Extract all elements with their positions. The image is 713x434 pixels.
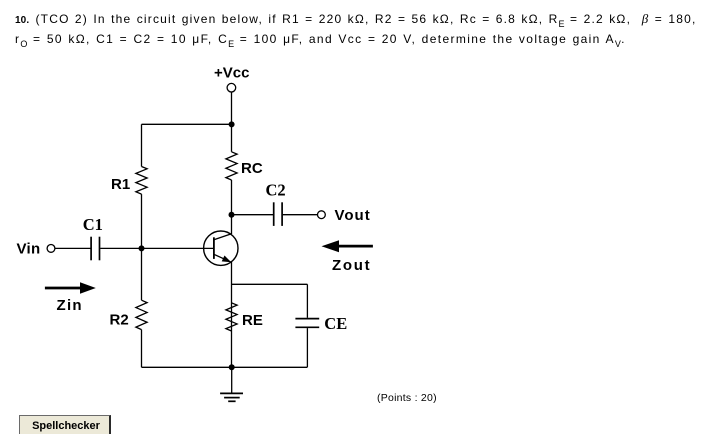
wire left down to R1 — [141, 124, 143, 166]
wire RC top — [231, 124, 233, 152]
wire C2 to Vout — [283, 214, 318, 216]
resistor R2 — [110, 300, 148, 329]
node collector junction — [229, 212, 235, 218]
wire emitter vertical — [231, 262, 233, 367]
svg-text:R2: R2 — [110, 312, 129, 329]
resistor RC — [226, 152, 263, 180]
ground — [220, 393, 243, 401]
Zin arrow — [45, 282, 96, 314]
wire CE bottom — [306, 328, 308, 367]
Zout arrow — [322, 240, 373, 274]
Vcc terminal — [227, 83, 236, 92]
transistor Q1 — [204, 231, 238, 265]
svg-text:C1: C1 — [83, 215, 103, 234]
svg-text:C2: C2 — [266, 181, 286, 200]
wire base node to transistor base — [142, 247, 214, 249]
wire top horizontal — [142, 123, 232, 125]
wire bottom rail — [142, 366, 308, 368]
svg-text:CE: CE — [324, 314, 347, 333]
wire Vcc to top node — [231, 92, 233, 124]
wire collector node to C2 — [232, 214, 274, 216]
svg-text:+Vcc: +Vcc — [214, 65, 249, 82]
svg-text:RE: RE — [242, 312, 263, 329]
resistor RE — [226, 303, 263, 331]
wire ground stub — [231, 367, 233, 393]
question text — [15, 13, 697, 30]
wire R1 to base node — [141, 194, 143, 248]
wire CE top — [306, 284, 308, 318]
wire Vin to C1 — [55, 247, 91, 249]
wire R2 to bottom rail — [141, 330, 143, 368]
svg-text:R1: R1 — [111, 176, 130, 193]
wire emitter branch to CE — [232, 283, 308, 285]
svg-text:Zin: Zin — [57, 297, 83, 314]
spellchecker button — [19, 415, 111, 434]
wire C1 to base node — [100, 247, 141, 249]
svg-text:Zout: Zout — [332, 257, 371, 274]
wire base node to R2 — [141, 248, 143, 300]
svg-text:RC: RC — [241, 160, 263, 177]
svg-text:Vout: Vout — [335, 207, 371, 224]
capacitor C1 — [83, 215, 103, 260]
wire collector vertical — [231, 215, 233, 234]
Vout terminal — [318, 211, 326, 219]
capacitor C2 — [266, 181, 286, 226]
capacitor CE — [295, 314, 347, 333]
points label — [377, 392, 437, 404]
node top junction — [229, 121, 235, 127]
svg-text:Vin: Vin — [17, 240, 41, 257]
wire RC to collector node — [231, 180, 233, 215]
node ground junction — [229, 364, 235, 370]
node base junction — [139, 245, 145, 251]
Vin terminal — [47, 245, 55, 253]
resistor R1 — [111, 167, 147, 195]
